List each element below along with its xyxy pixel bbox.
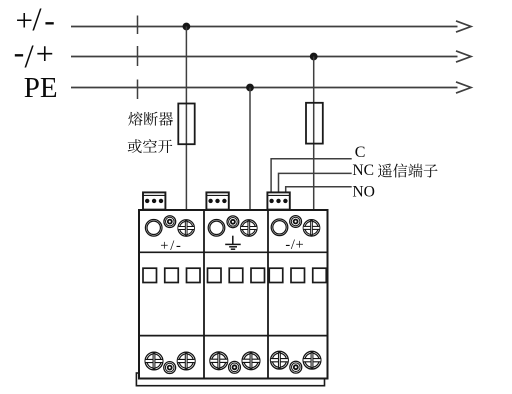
arrowhead of +/- bus [456,21,471,32]
wire from -/+ bus down to module 3 [313,57,315,211]
wire from +/- bus down to module 1 [185,27,187,211]
terminal block TB1 (3-pin) [143,192,165,209]
module border 1/2 [203,210,205,379]
label -/+ (middle bus) [14,34,54,75]
terminal block TB2 (3-pin) [206,192,228,209]
wire NC: from terminal to label [279,173,352,193]
module 1 top phillips screw [178,220,195,237]
divider line upper [139,251,328,253]
module 3 bottom left phillips screw [271,351,289,369]
wire: -/+ bus horizontal line [71,56,458,58]
wire: +/- bus horizontal line [71,26,458,28]
arrowhead of -/+ bus [456,51,471,62]
divider line lower [139,335,328,337]
wire C: from terminal to label [271,159,352,193]
module 1 bottom left phillips screw [145,352,163,370]
module 1 bottom indicator ring [164,362,176,374]
module vent squares [143,268,326,282]
fuse F2 (on -/+ drop wire) [306,103,323,144]
module 3 large terminal circle [271,219,288,236]
module 3 top indicator ring [290,216,302,228]
mounting plate under modules [136,373,324,386]
module 3 top phillips screw [303,220,320,237]
module 2 bottom right phillips screw [242,352,260,370]
label +/- (top bus) [16,2,55,38]
module 2 bottom indicator ring [229,361,241,373]
module 2 bottom left phillips screw [210,352,228,370]
node junction dot on PE bus [246,84,254,92]
module 2 large terminal circle [208,220,225,237]
svg-text:NC: NC [352,162,374,179]
svg-text:-: - [44,2,55,38]
wire NO: from terminal to label [286,187,352,193]
fuse F1 (on +/- drop wire) [178,104,194,145]
wire from PE bus down to module 2 [249,88,251,211]
label 遥信端子 (remote signal terminal) [378,163,438,177]
module 3 bottom right phillips screw [303,351,321,369]
module border 2/3 [267,210,269,379]
wire: PE bus horizontal line [71,87,458,89]
label 熔断器 (fuse) line 1 [128,112,173,126]
svg-text:/: / [25,39,35,75]
svg-text:+/-: +/- [160,238,182,254]
module 1 large terminal circle [145,220,162,237]
module 3 bottom indicator ring [290,361,302,373]
module 1 bottom right phillips screw [177,352,195,370]
arrowhead of PE bus [456,82,471,93]
SPD module assembly outer body [139,210,328,379]
svg-text:-/+: -/+ [285,237,304,253]
module 1 top indicator ring [164,216,176,228]
svg-text:C: C [355,144,366,161]
node junction dot on -/+ bus [310,53,318,61]
node junction dot on +/- bus [183,23,191,31]
module 2 top indicator ring [227,216,239,228]
svg-text:+: + [36,35,54,71]
module 2 earth ground symbol [225,236,241,250]
dashed boundary line crossing buses [137,16,139,100]
terminal block TB3 (3-pin) [267,192,289,209]
svg-text:+: + [16,3,33,38]
module 2 top phillips screw [241,220,257,237]
svg-text:-: - [14,34,25,70]
label 或空开 (or breaker) line 2 [128,139,173,153]
svg-text:/: / [32,2,42,38]
svg-text:PE: PE [24,72,58,104]
svg-text:NO: NO [352,183,375,200]
